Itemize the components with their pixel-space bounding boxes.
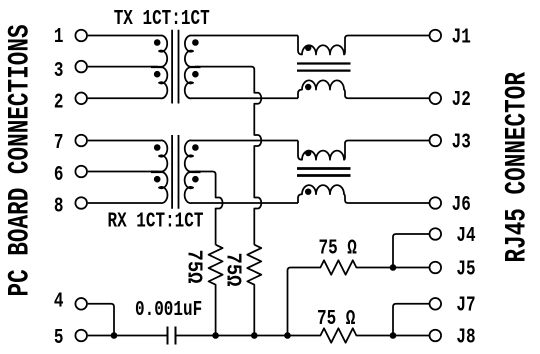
T1 primary polarity dots <box>154 39 161 77</box>
svg-text:J1: J1 <box>452 24 471 49</box>
svg-text:3: 3 <box>54 58 64 83</box>
choke L1 top winding (TX+ to J1) <box>298 36 430 55</box>
resistor R3 75ohm (horizontal, J4/J5 to common) with wires <box>288 260 430 335</box>
pin 4 label <box>54 289 64 314</box>
junction dot R1/rail <box>212 332 219 339</box>
label: RX 1CT:1CT <box>108 208 204 233</box>
wire T1 secondary center tap down to resistor R2 (with hops) <box>195 67 261 245</box>
pin 4 terminal <box>75 298 87 310</box>
svg-text:PC BOARD CONNECTIONS: PC BOARD CONNECTIONS <box>3 24 37 296</box>
choke L2 bottom polarity dot <box>305 189 311 195</box>
label: TX 1CT:1CT <box>114 6 210 31</box>
svg-text:8: 8 <box>54 194 64 219</box>
choke L2 top winding (RX+ to J3) <box>298 141 430 160</box>
junction dot R3/rail <box>284 332 291 339</box>
junction dot J4/J5 node <box>390 264 397 271</box>
J8 terminal <box>430 330 442 342</box>
pin 7 terminal <box>75 135 87 147</box>
T2 primary polarity dots <box>154 144 161 182</box>
svg-text:4: 4 <box>54 289 64 314</box>
svg-text:5: 5 <box>54 325 64 350</box>
wire pin 4 down to bottom rail <box>88 304 114 336</box>
svg-text:J2: J2 <box>452 87 471 112</box>
label J8 <box>456 324 475 349</box>
svg-text:75 Ω: 75 Ω <box>319 235 357 260</box>
J3 terminal <box>430 135 442 147</box>
choke L1 bottom polarity dot <box>305 84 311 90</box>
J2 terminal <box>430 93 442 105</box>
svg-text:RJ45 CONNECTOR: RJ45 CONNECTOR <box>500 72 534 262</box>
pin 2 label <box>54 89 64 114</box>
pin 3 label <box>54 58 64 83</box>
choke L1 core <box>297 64 351 71</box>
svg-text:J4: J4 <box>456 223 475 248</box>
svg-text:7: 7 <box>54 130 64 155</box>
capacitor C1 0.001uF plates <box>168 327 176 345</box>
pin 3 terminal <box>75 61 87 73</box>
J6 terminal <box>430 197 442 209</box>
transformer T1 (TX) primary winding with pin1 wire <box>88 35 168 98</box>
pin 5 label <box>54 325 64 350</box>
svg-text:RX 1CT:1CT: RX 1CT:1CT <box>108 208 204 233</box>
wire J4 down to J5 node <box>393 234 430 268</box>
label J3 <box>452 129 471 154</box>
pin 7 label <box>54 130 64 155</box>
svg-text:1: 1 <box>54 24 64 49</box>
pin 5 terminal <box>75 330 87 342</box>
label: 0.001uF <box>135 297 202 322</box>
pin 2 terminal <box>75 93 87 105</box>
label: 75ohm for R4 <box>317 306 355 331</box>
svg-text:75Ω: 75Ω <box>221 253 245 287</box>
choke L1 top polarity dot <box>305 45 311 51</box>
transformer T2 core <box>172 135 178 209</box>
choke L2 core <box>297 169 351 176</box>
pin 1 terminal <box>75 30 87 42</box>
label: RJ45 CONNECTOR (vertical, right) <box>500 72 534 262</box>
pin 1 label <box>54 24 64 49</box>
svg-text:J7: J7 <box>456 293 475 318</box>
svg-text:2: 2 <box>54 89 64 114</box>
label: PC BOARD CONNECTIONS (vertical, left) <box>3 24 37 296</box>
label: 75ohm for R3 <box>319 235 357 260</box>
resistor R1 75ohm (vertical) <box>209 245 223 336</box>
transformer T2 secondary winding with wires to choke L2 <box>185 140 298 203</box>
svg-text:75 Ω: 75 Ω <box>317 306 355 331</box>
junction dot pin4/rail <box>111 332 118 339</box>
resistor R2 75ohm (vertical) <box>247 245 261 336</box>
choke L1 bottom winding (TX- to J2) <box>298 80 430 98</box>
wire pin 6 to T2 primary center tap <box>88 171 158 173</box>
label: 75ohm for R2 (rotated) <box>221 253 245 287</box>
svg-text:J6: J6 <box>452 192 471 217</box>
transformer T1 secondary winding with wires to choke L1 <box>185 35 298 98</box>
svg-text:6: 6 <box>54 162 64 187</box>
pin 8 terminal <box>75 197 87 209</box>
pin 6 label <box>54 162 64 187</box>
svg-text:J8: J8 <box>456 324 475 349</box>
transformer T1 core <box>172 30 178 104</box>
svg-text:TX 1CT:1CT: TX 1CT:1CT <box>114 6 210 31</box>
T1 secondary polarity dots <box>192 39 199 77</box>
label J2 <box>452 87 471 112</box>
pin 8 label <box>54 194 64 219</box>
label J7 <box>456 293 475 318</box>
label J6 <box>452 192 471 217</box>
svg-text:75Ω: 75Ω <box>182 250 206 284</box>
T2 secondary polarity dots <box>192 144 199 182</box>
J1 terminal <box>430 30 442 42</box>
J4 terminal <box>430 228 442 240</box>
wire J7 down to J8 rail <box>393 304 430 336</box>
label J1 <box>452 24 471 49</box>
junction dot J7/rail <box>390 332 397 339</box>
svg-text:J5: J5 <box>456 256 475 281</box>
bottom rail with resistor R4 75ohm (horizontal, J7/J8 to common) <box>176 328 430 342</box>
J5 terminal <box>430 262 442 274</box>
choke L2 bottom winding (RX- to J6) <box>298 185 430 203</box>
J7 terminal <box>430 298 442 310</box>
label J5 <box>456 256 475 281</box>
wire T2 secondary center tap down to resistor R1 (with hop) <box>195 172 223 245</box>
transformer T2 (RX) primary winding with pin7 wire <box>88 140 168 203</box>
label: 75ohm for R1 (rotated) <box>182 250 206 284</box>
label J4 <box>456 223 475 248</box>
svg-text:0.001uF: 0.001uF <box>135 297 202 322</box>
pin 6 terminal <box>75 166 87 178</box>
svg-text:J3: J3 <box>452 129 471 154</box>
junction dot R2/rail <box>251 332 258 339</box>
wire pin 3 to T1 primary center tap <box>88 66 158 68</box>
wire pin 5 to capacitor C1 <box>88 335 168 337</box>
choke L2 top polarity dot <box>305 150 311 156</box>
